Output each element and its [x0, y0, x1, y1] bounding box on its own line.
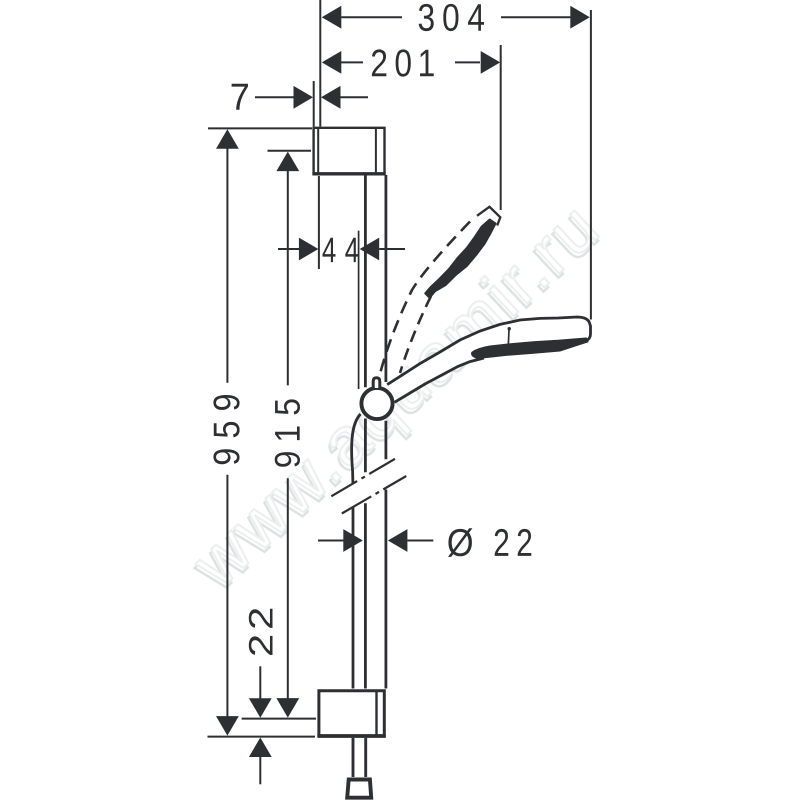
dim 959 arrow down	[216, 716, 239, 736]
dim 201 arrow left	[322, 51, 342, 74]
dim 201 extension line right	[500, 45, 502, 210]
hose left edge lower	[352, 508, 355, 689]
dim 915 upper line	[287, 168, 289, 385]
bottom wall bracket	[319, 691, 384, 736]
dim 7 line left	[255, 96, 294, 98]
dim 915 arrow down	[276, 698, 299, 718]
phantom handle axis thin line	[358, 231, 360, 389]
shower head spray face band	[472, 339, 587, 358]
dim 201 line	[341, 61, 480, 63]
slider holder circle	[361, 388, 392, 419]
rail break symbol line 1	[331, 459, 395, 497]
dim 7 text	[232, 84, 248, 110]
dim 959 lower line	[226, 475, 228, 719]
dim diameter 22 arrow (pointing left)	[388, 529, 408, 552]
hose end ferrule	[347, 780, 371, 798]
bottom wall bracket bottom edge thick	[317, 735, 385, 738]
dim 44 line right	[379, 248, 405, 250]
rail break symbol line 2	[342, 476, 407, 514]
top wall bracket inner line right	[375, 128, 377, 173]
dim diameter 22 arrow (pointing right)	[343, 529, 363, 552]
dim 44 arrow (pointing left)	[360, 238, 380, 261]
dim 959 upper line	[226, 146, 228, 383]
shower head button tick	[507, 330, 510, 346]
dim 915 bottom extension line	[242, 718, 316, 720]
dim 22 arrow down	[249, 698, 272, 718]
dim 7 line right	[341, 96, 369, 98]
top wall bracket	[314, 128, 385, 174]
dim 915 text	[275, 399, 300, 466]
top wall bracket inner line left	[317, 128, 319, 173]
phantom head spray face band	[425, 220, 495, 298]
dim 915 lower line	[287, 478, 289, 700]
dim diameter 22 text	[448, 528, 531, 557]
rail left edge	[364, 175, 367, 689]
dim 44 line left	[278, 248, 300, 250]
hose below bracket left edge	[352, 738, 355, 777]
dim 959 text	[213, 395, 239, 464]
dim 304 extension line left	[319, 0, 321, 127]
dim 201 arrow right	[481, 51, 501, 74]
hose below bracket right edge	[364, 738, 367, 777]
watermark www.aquamir.ru	[175, 187, 616, 606]
dim 7 arrow right (pointing left)	[321, 86, 341, 109]
dim 304 arrow right	[570, 6, 590, 29]
shower handle bottom edge	[395, 358, 485, 402]
dim 304 line	[341, 16, 570, 18]
dim 304 text	[419, 4, 484, 31]
dim 915 top extension line	[268, 150, 312, 152]
dim 22 upper stem	[259, 666, 261, 699]
dim 959 top extension line	[208, 127, 312, 129]
dim 959 bottom extension line	[208, 736, 316, 738]
dim 22 text	[249, 609, 273, 655]
phantom head cap lines	[477, 207, 500, 226]
shower handle and head body (white fill)	[384, 317, 591, 402]
hose upper curve from circle	[352, 414, 361, 484]
bottom wall bracket inner line	[375, 691, 377, 735]
rail right edge	[384, 175, 387, 689]
dim 44 arrow (pointing right)	[299, 238, 319, 261]
top wall bracket bottom edge thick	[312, 172, 385, 175]
dim 44 text	[323, 238, 359, 262]
dim 7 short extension line	[313, 81, 315, 127]
dim 22 lower stem	[259, 756, 261, 784]
dim 959 arrow up	[216, 129, 239, 149]
slider pin	[373, 378, 380, 388]
dim diameter 22 line left	[318, 540, 344, 542]
dim 7 arrow left (pointing right)	[294, 86, 314, 109]
shower handle top edge	[387, 317, 590, 385]
dim 22 arrow up (below)	[249, 738, 272, 758]
dim 304 arrow left	[322, 6, 342, 29]
dim 201 text	[372, 49, 434, 76]
dim 44 extension line	[318, 176, 320, 269]
phantom dashed curve right	[400, 296, 431, 373]
dim diameter 22 line right	[407, 540, 433, 542]
dim 915 arrow up	[276, 152, 299, 172]
dim 304 extension line right	[590, 10, 592, 320]
phantom dashed curve left	[377, 222, 470, 387]
